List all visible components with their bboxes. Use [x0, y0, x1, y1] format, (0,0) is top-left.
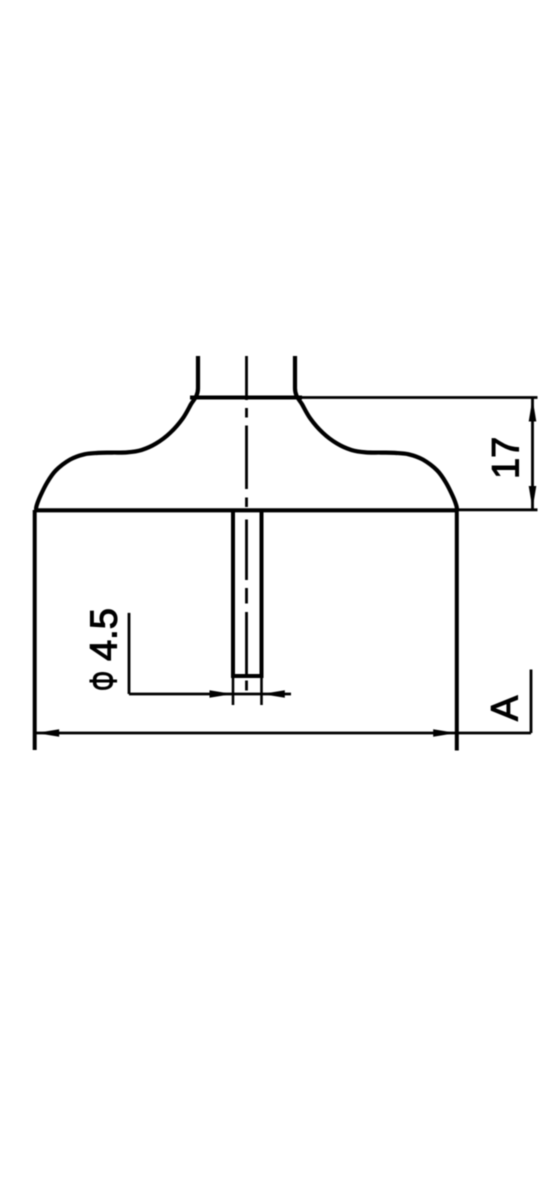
arrowhead A left (points left at base left edge): [36, 729, 59, 737]
dimension line A (horizontal): [36, 732, 531, 735]
svg-text:4.5: 4.5: [84, 608, 126, 661]
extension line for dimension 17 (bottom): [457, 508, 538, 511]
svg-text:Φ: Φ: [82, 671, 124, 691]
stem left outline and left S-curve flank: [36, 356, 198, 511]
base top edge line: [35, 508, 457, 512]
hole left extension line for dimension 4.5: [232, 676, 235, 705]
dimension A label tail line: [530, 670, 533, 734]
hole left edge line: [231, 511, 235, 676]
hole right edge line: [260, 511, 264, 676]
dimension line 17 (vertical): [531, 398, 534, 511]
extension line for dimension 17 (top): [302, 396, 538, 399]
hole right extension line for dimension 4.5: [260, 676, 263, 705]
leader line for dimension 4.5 (vertical jog): [128, 613, 131, 694]
arrowhead 4.5 right (points left at hole right edge): [262, 690, 285, 698]
arrowhead 4.5 left (points right at hole left edge): [210, 690, 233, 698]
hole bottom line: [231, 674, 264, 678]
vertical centerline (dash-dot): [245, 356, 248, 691]
svg-text:A: A: [485, 695, 527, 721]
shoulder edge line (flange tangent edge): [190, 396, 302, 400]
arrowhead 17 top (points up): [529, 399, 537, 422]
dimension line 4.5 (continuous with outside tails): [129, 693, 291, 696]
base right edge: [455, 510, 459, 751]
arrowhead 17 bottom (points down): [529, 486, 537, 509]
arrowhead A right (points right at base right edge): [433, 729, 456, 737]
svg-text:17: 17: [486, 437, 528, 479]
base left edge: [33, 510, 37, 750]
stem right outline and right S-curve flank: [295, 356, 457, 511]
